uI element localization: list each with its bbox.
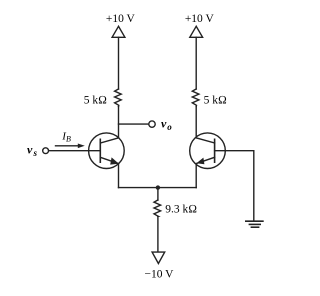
- terminal vo: [149, 121, 155, 127]
- svg-text:v: v: [27, 143, 33, 157]
- node junction: [156, 185, 160, 189]
- supply +10V left symbol: [112, 26, 125, 37]
- wire base Q1: [48, 150, 100, 152]
- label IB: [61, 130, 71, 143]
- svg-text:B: B: [66, 134, 71, 143]
- wire emitter Q1 down: [118, 164, 120, 188]
- svg-text:9.3 kΩ: 9.3 kΩ: [165, 204, 197, 216]
- resistor 5k left: [115, 89, 122, 107]
- svg-text:+10 V: +10 V: [185, 13, 215, 25]
- terminal vs: [43, 148, 49, 154]
- svg-text:−10 V: −10 V: [145, 268, 175, 280]
- current arrow IB: [56, 144, 85, 149]
- svg-text:5 kΩ: 5 kΩ: [204, 94, 227, 106]
- wire right resistor to collector: [195, 107, 197, 138]
- label vo: [161, 116, 172, 132]
- supply +10V right symbol: [190, 26, 203, 37]
- wire down to ground: [253, 151, 255, 222]
- svg-text:5 kΩ: 5 kΩ: [84, 94, 107, 106]
- wire right supply to resistor: [195, 37, 197, 89]
- wire vo tap: [119, 123, 149, 125]
- transistor Q2 (right): [190, 133, 226, 169]
- svg-text:o: o: [167, 122, 172, 132]
- wire base Q2 to right: [215, 150, 254, 152]
- resistor 9.3k: [154, 200, 161, 216]
- svg-text:s: s: [33, 148, 38, 158]
- resistor 5k right: [192, 89, 199, 107]
- wire left resistor to collector: [118, 107, 120, 139]
- wire left supply to resistor: [118, 37, 120, 89]
- ground: [246, 221, 263, 227]
- wire junction to resistor: [157, 188, 159, 200]
- wire resistor to -10V: [157, 216, 159, 252]
- svg-text:v: v: [161, 116, 167, 130]
- wire bottom rail: [119, 187, 197, 189]
- transistor Q1 (left): [89, 133, 125, 169]
- label vs: [27, 143, 38, 158]
- wire emitter Q2 down: [195, 164, 197, 188]
- svg-text:+10 V: +10 V: [106, 13, 136, 25]
- supply -10V symbol: [152, 252, 165, 263]
